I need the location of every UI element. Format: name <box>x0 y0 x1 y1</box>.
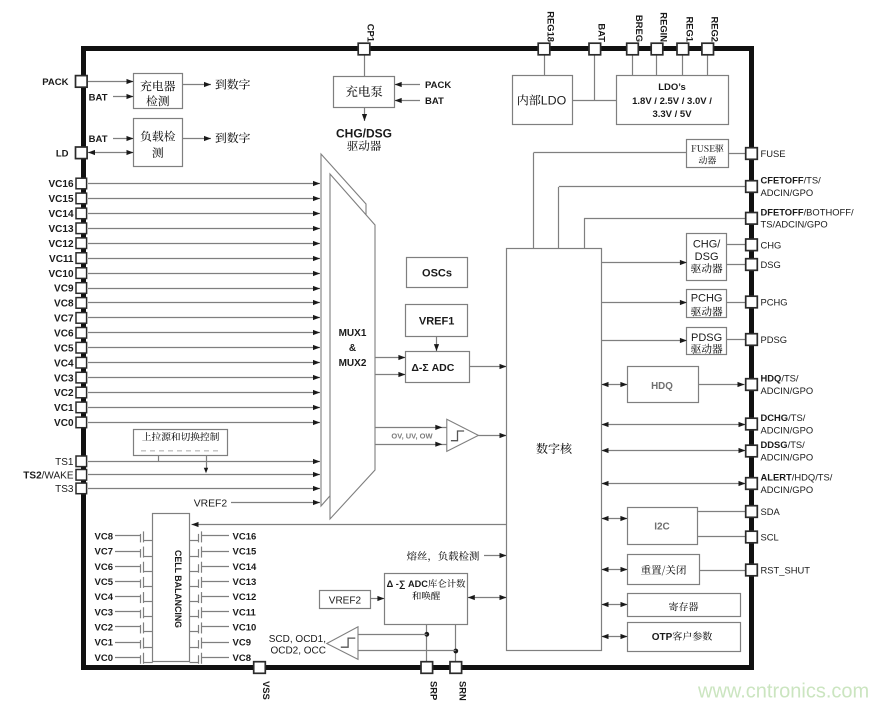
svg-text:ADCIN/GPO: ADCIN/GPO <box>761 484 814 495</box>
svg-text:VC4: VC4 <box>95 592 114 603</box>
svg-text:MUX1: MUX1 <box>339 328 367 339</box>
svg-text:OSCs: OSCs <box>422 268 452 280</box>
svg-text:VC13: VC13 <box>48 224 73 235</box>
svg-text:BAT: BAT <box>596 23 607 42</box>
svg-text:ADCIN/GPO: ADCIN/GPO <box>761 187 814 198</box>
svg-text:PACK: PACK <box>425 80 451 91</box>
svg-text:VC8: VC8 <box>233 653 251 664</box>
svg-text:CHG/: CHG/ <box>693 239 721 251</box>
svg-text:VC6: VC6 <box>54 329 74 340</box>
svg-text:TS1: TS1 <box>55 457 74 468</box>
svg-text:DSG: DSG <box>761 259 781 270</box>
svg-text:VC8: VC8 <box>95 532 113 543</box>
svg-text:REG18: REG18 <box>546 11 557 42</box>
svg-text:VC2: VC2 <box>54 388 74 399</box>
svg-text:FUSE: FUSE <box>761 148 786 159</box>
svg-text:DDSG/TS/: DDSG/TS/ <box>761 439 806 450</box>
svg-text:ALERT/HDQ/TS/: ALERT/HDQ/TS/ <box>761 472 833 483</box>
svg-text:PDSG: PDSG <box>761 334 788 345</box>
svg-text:CFETOFF/TS/: CFETOFF/TS/ <box>761 175 822 186</box>
svg-text:VREF2: VREF2 <box>194 499 228 510</box>
svg-text:VC7: VC7 <box>95 547 113 558</box>
svg-text:VREF2: VREF2 <box>329 596 362 607</box>
svg-text:OTP: OTP <box>652 632 673 643</box>
svg-text:VC12: VC12 <box>48 239 73 250</box>
svg-text:PACK: PACK <box>42 77 68 88</box>
svg-text:VC15: VC15 <box>233 547 257 558</box>
svg-text:VC10: VC10 <box>233 623 257 634</box>
svg-text:OCD2, OCC: OCD2, OCC <box>270 645 326 656</box>
svg-text:www.cntronics.com: www.cntronics.com <box>697 681 869 703</box>
svg-text:3.3V / 5V: 3.3V / 5V <box>652 109 692 120</box>
svg-text:LDO’s: LDO’s <box>658 82 686 93</box>
svg-text:VC7: VC7 <box>54 314 74 325</box>
svg-text:VC13: VC13 <box>233 577 257 588</box>
svg-text:VC14: VC14 <box>48 209 73 220</box>
svg-text:DFETOFF/BOTHOFF/: DFETOFF/BOTHOFF/ <box>761 206 854 217</box>
svg-text:VC1: VC1 <box>54 403 74 414</box>
svg-text:VC12: VC12 <box>233 592 257 603</box>
svg-text:VC9: VC9 <box>233 638 251 649</box>
svg-text:DSG: DSG <box>695 251 719 263</box>
svg-text:VC1: VC1 <box>95 638 114 649</box>
svg-text:TS/ADCIN/GPO: TS/ADCIN/GPO <box>761 219 828 230</box>
svg-text:SCD, OCD1,: SCD, OCD1, <box>269 634 326 645</box>
svg-text:BREG: BREG <box>634 15 645 42</box>
svg-text:VC3: VC3 <box>95 607 113 618</box>
svg-text:BAT: BAT <box>89 134 108 145</box>
svg-text:VC6: VC6 <box>95 562 113 573</box>
svg-text:VC16: VC16 <box>233 532 257 543</box>
svg-text:1.8V / 2.5V / 3.0V /: 1.8V / 2.5V / 3.0V / <box>632 96 712 107</box>
svg-text:BAT: BAT <box>425 96 444 107</box>
svg-text:I2C: I2C <box>654 522 670 533</box>
svg-text:OV, UV, OW: OV, UV, OW <box>391 432 433 441</box>
svg-text:VC3: VC3 <box>54 373 74 384</box>
svg-text:CHG: CHG <box>761 239 782 250</box>
svg-text:PCHG: PCHG <box>761 297 788 308</box>
svg-text:VC2: VC2 <box>95 623 113 634</box>
svg-text:ADCIN/GPO: ADCIN/GPO <box>761 385 814 396</box>
svg-text:Δ-Σ ADC: Δ-Σ ADC <box>411 362 454 374</box>
svg-text:SRN: SRN <box>457 681 468 701</box>
svg-text:CELL BALANCING: CELL BALANCING <box>173 550 183 628</box>
svg-text:Δ -∑: Δ -∑ <box>387 579 406 590</box>
svg-text:VC9: VC9 <box>54 284 74 295</box>
svg-text:HDQ: HDQ <box>651 381 673 392</box>
svg-text:SCL: SCL <box>761 532 779 543</box>
svg-text:PDSG: PDSG <box>691 332 722 344</box>
svg-text:ADCIN/GPO: ADCIN/GPO <box>761 451 814 462</box>
svg-text:BAT: BAT <box>89 92 108 103</box>
svg-text:VC14: VC14 <box>233 562 257 573</box>
svg-text:SRP: SRP <box>428 681 439 700</box>
svg-text:ADC: ADC <box>408 579 428 589</box>
svg-text:MUX2: MUX2 <box>339 358 367 369</box>
svg-text:PCHG: PCHG <box>691 292 723 304</box>
svg-text:LDO: LDO <box>541 94 567 108</box>
svg-text:TS2/WAKE: TS2/WAKE <box>23 471 74 482</box>
svg-text:CHG/DSG: CHG/DSG <box>336 126 392 140</box>
svg-text:VC5: VC5 <box>95 577 114 588</box>
svg-text:REG1: REG1 <box>684 16 695 42</box>
svg-text:LD: LD <box>56 148 69 159</box>
svg-text:RST_SHUT: RST_SHUT <box>761 565 811 576</box>
svg-text:VC0: VC0 <box>95 653 113 664</box>
svg-text:VC11: VC11 <box>233 607 257 618</box>
svg-text:VC16: VC16 <box>48 179 73 190</box>
svg-text:CP1: CP1 <box>366 24 377 42</box>
svg-text:VSS: VSS <box>261 681 272 700</box>
svg-text:VC8: VC8 <box>54 299 74 310</box>
svg-text:TS3: TS3 <box>55 484 74 495</box>
svg-text:REG2: REG2 <box>709 16 720 42</box>
svg-text:VC15: VC15 <box>48 194 73 205</box>
svg-text:VC5: VC5 <box>54 343 74 354</box>
svg-text:REGIN: REGIN <box>659 12 670 42</box>
svg-text:VC0: VC0 <box>54 418 74 429</box>
svg-text:VC11: VC11 <box>49 254 74 265</box>
svg-text:HDQ/TS/: HDQ/TS/ <box>761 373 799 384</box>
svg-text:&: & <box>349 343 356 354</box>
svg-text:SDA: SDA <box>761 506 781 517</box>
svg-text:VC10: VC10 <box>48 269 73 280</box>
svg-text:VREF1: VREF1 <box>419 315 454 327</box>
svg-text:ADCIN/GPO: ADCIN/GPO <box>761 424 814 435</box>
svg-text:DCHG/TS/: DCHG/TS/ <box>761 412 806 423</box>
svg-text:VC4: VC4 <box>54 358 74 369</box>
